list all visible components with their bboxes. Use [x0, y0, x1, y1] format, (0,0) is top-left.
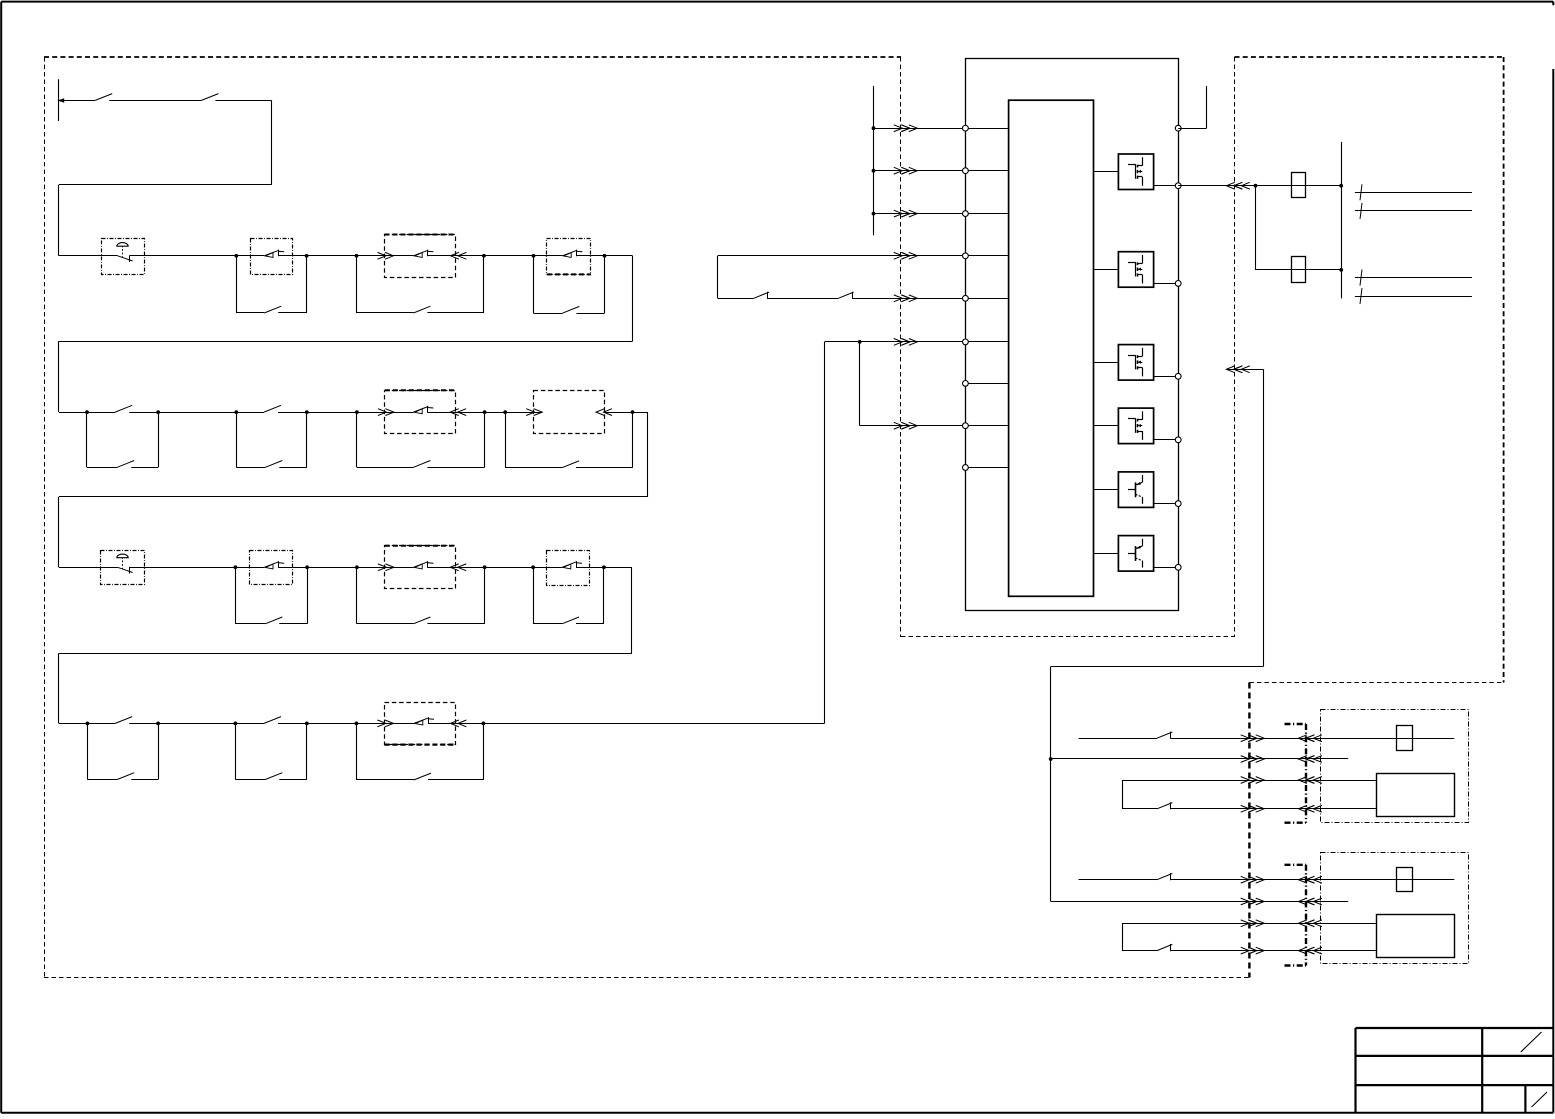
- rung 3 return wire: [631, 567, 633, 653]
- controller inner rectangle U1: [1009, 100, 1094, 596]
- input bracket with two pushbuttons: [717, 256, 719, 298]
- output terminals (circles) right: [1175, 125, 1181, 131]
- output pin stubs right of U1: [1094, 171, 1119, 173]
- branch wire to second fuse: [1255, 186, 1257, 270]
- connector bracket group 2 (bold dash-dot): [1305, 865, 1307, 966]
- relay group 2: bracket wires to load: [1122, 923, 1124, 950]
- bypass contact under X1: [356, 256, 358, 313]
- wire: branch to second input: [859, 342, 861, 426]
- relay group 2: feedback line: [1051, 901, 1349, 903]
- node dots rung 1: [234, 254, 238, 258]
- bypass contact under SQ2: [533, 256, 535, 313]
- connector box X1 with NC contact (rung 1): [385, 235, 456, 278]
- transistor V5: [1118, 472, 1153, 508]
- bypass contact 1 rung 4: [87, 723, 89, 779]
- rung 2 wire: [59, 412, 115, 414]
- bypass contact under X5: [356, 723, 358, 780]
- bypass contact under SQ4: [533, 567, 535, 624]
- relay group 1: feedback line: [1051, 758, 1349, 760]
- connector box X4 with NC contact (rung 3): [385, 546, 456, 589]
- fuse FU1: [1292, 173, 1306, 198]
- bypass contact 2 rung 2: [236, 412, 238, 467]
- enclosure boundary: central dashed wall: [900, 57, 902, 637]
- drawing frame border: [1, 1, 1553, 3]
- device enclosure group 2 (dash-dot box): [1321, 853, 1469, 964]
- load box M1: [1377, 774, 1455, 817]
- limit switch SQ3 (NC): [250, 551, 293, 585]
- wire: output to fuse bus: [1178, 185, 1341, 187]
- coil KM1: [1397, 726, 1413, 751]
- limit switch SQ1 (NC): [251, 239, 293, 275]
- rung 1 wire: [59, 255, 118, 257]
- fuse FU2: [1292, 257, 1306, 283]
- bypass contact under SQ3: [235, 567, 237, 624]
- connector bracket group 1 (bold dash-dot): [1305, 724, 1307, 823]
- bypass contact 2 rung 4: [235, 723, 237, 779]
- controller outer rectangle: [966, 59, 1179, 611]
- bypass contact under X3: [505, 412, 507, 468]
- transistor V1: [1118, 154, 1153, 190]
- relay group 1: bracket wires to load: [1122, 780, 1124, 809]
- stub to aux pin: [1178, 128, 1206, 130]
- transistor V4: [1118, 408, 1153, 444]
- bypass contact under X4: [356, 567, 358, 624]
- rung 4 wire: [59, 723, 115, 725]
- transistor V2: [1118, 252, 1153, 288]
- wire: feed return: [271, 100, 273, 184]
- bypass contact under X2: [356, 412, 358, 467]
- title block: [1356, 1027, 1554, 1029]
- title block slash marks: [1521, 1032, 1542, 1052]
- feed line arrowhead: [57, 98, 64, 103]
- relay group 1: control line with contact: [1079, 738, 1158, 740]
- enclosure boundary: left cabinet dashed box: [44, 56, 901, 58]
- vertical feeder bus: [1341, 142, 1343, 298]
- connector box X3 (empty, rung 2): [534, 391, 605, 434]
- left supply rail: [58, 79, 60, 121]
- top feed line with switches S1 S2: [59, 100, 95, 102]
- device enclosure group 1 (dash-dot box): [1321, 710, 1469, 823]
- load box M2: [1377, 915, 1455, 958]
- enclosure boundary: upper-right dashed box: [1235, 56, 1504, 58]
- feedback wire from controller to contactor group: [1227, 369, 1263, 371]
- transistor V3: [1118, 345, 1153, 381]
- input bus stub (three sensor lines): [873, 86, 875, 235]
- rung 3 wire: [59, 567, 118, 569]
- transistor V6: [1118, 536, 1153, 572]
- coil KM2: [1397, 868, 1413, 892]
- dots rung 2 left: [85, 410, 89, 414]
- connector box X2 with NC contact (rung 2): [385, 391, 456, 434]
- dots after X1: [482, 254, 486, 258]
- relay group 2: control line with contact: [1079, 879, 1158, 881]
- emergency stop button SB1 (NC mushroom): [102, 239, 145, 275]
- rung 2 return wire: [647, 412, 649, 497]
- rung 1 return wire: [632, 256, 634, 341]
- input terminals (circles) left: [963, 125, 969, 131]
- limit switch SQ4 (NC, small box rung 3): [547, 551, 590, 586]
- rung 4 riser wire to controller inputs: [824, 342, 826, 724]
- bypass contact under SQ1: [236, 256, 238, 313]
- output terminal lines with ticks: [1355, 192, 1472, 194]
- bypass contact 1 rung 2: [86, 412, 88, 467]
- emergency stop button SB2 (NC mushroom): [101, 551, 145, 585]
- wire with contacts to input: [718, 298, 754, 300]
- connector box X5 with NC contact (rung 4): [385, 703, 456, 745]
- limit switch SQ2 (NC, small box rung 1): [547, 239, 591, 275]
- input pin stubs left: [965, 128, 1008, 130]
- enclosure boundary: lower-right bold dashed wall: [1248, 683, 1250, 978]
